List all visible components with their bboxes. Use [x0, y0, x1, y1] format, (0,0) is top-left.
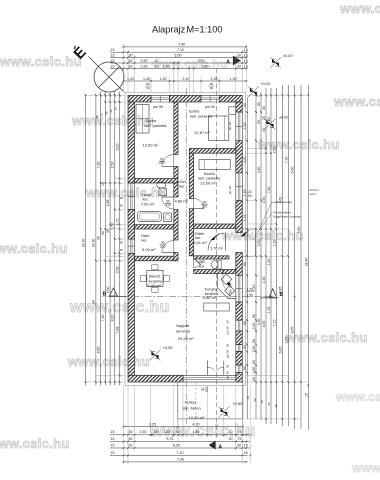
wall kitchen top: [223, 270, 236, 274]
svg-text:15: 15: [111, 443, 115, 447]
svg-text:60: 60: [120, 248, 124, 252]
svg-text:10: 10: [155, 59, 159, 63]
svg-text:75: 75: [238, 430, 242, 434]
svg-text:2,50: 2,50: [111, 162, 115, 169]
kitchen island: [204, 303, 229, 311]
svg-text:29,28 m²: 29,28 m²: [178, 336, 194, 341]
svg-text:6,50: 6,50: [173, 443, 180, 447]
svg-text:2,10: 2,10: [183, 77, 190, 81]
top wall segment right corner: [219, 95, 242, 102]
svg-text:7,15: 7,15: [272, 320, 276, 327]
svg-text:+0,02: +0,02: [260, 82, 270, 86]
entry arrow porch: [241, 232, 247, 237]
svg-text:1,50: 1,50: [111, 223, 115, 230]
kitchen stove diamond: [225, 286, 235, 296]
svg-text:ker.: ker.: [199, 264, 205, 268]
door utility: [173, 240, 175, 253]
svg-text:30: 30: [262, 106, 266, 110]
svg-text:90: 90: [210, 86, 214, 90]
svg-text:15: 15: [111, 64, 115, 68]
window living room right wall 2: [235, 345, 237, 352]
wall V2 lower: [189, 209, 193, 256]
svg-text:Étkező: Étkező: [149, 274, 161, 279]
svg-text:1,15: 1,15: [243, 215, 247, 222]
terrace double door: [206, 361, 208, 376]
svg-text:1,20: 1,20: [243, 190, 247, 197]
washbasin: [157, 182, 166, 188]
svg-text:5,75: 5,75: [167, 437, 174, 441]
svg-text:pm 90: pm 90: [228, 185, 232, 194]
svg-text:15: 15: [111, 430, 115, 434]
svg-text:18,40: 18,40: [304, 258, 308, 267]
svg-text:1,20: 1,20: [267, 259, 271, 266]
svg-text:lam. parketta: lam. parketta: [190, 114, 213, 118]
svg-text:ker.: ker.: [179, 185, 185, 189]
svg-text:7,10: 7,10: [177, 48, 184, 52]
svg-text:90: 90: [120, 241, 124, 245]
svg-text:szint: szint: [310, 192, 316, 196]
svg-text:Nappali: Nappali: [176, 324, 189, 328]
svg-text:15: 15: [244, 451, 248, 455]
svg-text:5,51 m²: 5,51 m²: [193, 240, 207, 245]
svg-text:2,88: 2,88: [106, 200, 110, 207]
svg-text:www.csic.hu: www.csic.hu: [0, 436, 70, 451]
svg-text:Szoba: Szoba: [145, 119, 157, 123]
svg-text:60: 60: [243, 321, 247, 325]
svg-text:210: 210: [202, 204, 208, 208]
covered porch slab: [242, 228, 255, 230]
svg-text:pm 90: pm 90: [205, 105, 215, 109]
right wall segment 7: [236, 352, 243, 366]
level marker terrace: [219, 407, 229, 417]
wall WC bottom: [194, 270, 223, 274]
svg-text:90: 90: [146, 86, 150, 90]
svg-text:4,60: 4,60: [106, 287, 110, 294]
svg-text:45: 45: [95, 115, 99, 119]
svg-text:2,60: 2,60: [252, 346, 256, 353]
svg-text:8,55: 8,55: [291, 327, 295, 334]
svg-text:10: 10: [154, 430, 158, 434]
svg-text:2,80: 2,80: [202, 64, 209, 68]
top wall segment left corner: [128, 95, 151, 102]
svg-text:www.csic.hu: www.csic.hu: [339, 1, 380, 16]
right wall segment 6: [236, 331, 243, 345]
svg-text:40: 40: [243, 103, 247, 107]
svg-text:3,90: 3,90: [198, 59, 205, 63]
section marker B left: [109, 288, 117, 296]
svg-text:7,00 m²: 7,00 m²: [141, 202, 155, 207]
svg-text:2,50: 2,50: [257, 240, 261, 247]
svg-text:30: 30: [101, 231, 105, 235]
svg-text:80: 80: [257, 102, 261, 106]
svg-text:pm 90: pm 90: [153, 105, 163, 109]
level marker living room: [150, 350, 161, 361]
svg-text:60: 60: [252, 377, 256, 381]
right wall segment 1: [236, 102, 243, 112]
kitchen sink diamond: [221, 274, 232, 285]
svg-text:30: 30: [104, 111, 108, 115]
svg-text:18,40: 18,40: [81, 239, 85, 248]
svg-text:60: 60: [243, 366, 247, 370]
svg-text:1,20: 1,20: [252, 285, 256, 292]
section line A-A vertical dashed: [216, 68, 218, 440]
svg-text:2,50: 2,50: [141, 59, 148, 63]
left wall middle segment: [128, 210, 135, 239]
svg-text:1,00: 1,00: [163, 64, 170, 68]
right dimension columns: [246, 97, 248, 419]
svg-text:pm 90: pm 90: [228, 121, 232, 130]
svg-text:15: 15: [274, 404, 278, 408]
svg-text:4,60: 4,60: [278, 197, 282, 204]
door bedroom1 (90/210): [173, 155, 175, 167]
svg-text:www.csic.hu: www.csic.hu: [221, 228, 304, 243]
svg-text:Alaprajz: Alaprajz: [152, 25, 186, 35]
svg-text:www.csic.hu: www.csic.hu: [351, 461, 380, 475]
svg-text:210: 210: [205, 387, 209, 393]
svg-text:4,60: 4,60: [257, 167, 261, 174]
svg-text:Konyha: Konyha: [205, 287, 219, 291]
svg-text:±0,00: ±0,00: [279, 116, 288, 120]
door bedroom3: [193, 198, 195, 208]
svg-text:40: 40: [92, 300, 96, 304]
svg-text:2,60: 2,60: [252, 367, 256, 374]
svg-text:www.csic.hu: www.csic.hu: [71, 113, 154, 128]
window kitchen right wall: [235, 275, 237, 302]
right wall segment 5: [236, 302, 243, 320]
wall V1 lower stub: [174, 253, 178, 261]
window W2 top (pm 90): [201, 94, 219, 96]
window living room right wall 1: [235, 320, 237, 331]
svg-text:15: 15: [111, 53, 115, 57]
entrance door: [225, 233, 227, 251]
left wall upper segment: [128, 102, 135, 183]
svg-text:15: 15: [244, 48, 248, 52]
niche bedroom2: [229, 107, 236, 115]
svg-text:15: 15: [244, 59, 248, 63]
svg-text:30: 30: [129, 64, 133, 68]
section marker A bottom: [209, 441, 215, 449]
svg-text:30: 30: [226, 344, 230, 348]
svg-text:4,55: 4,55: [262, 321, 266, 328]
svg-text:lam. parketta: lam. parketta: [144, 124, 167, 128]
svg-text:1,30: 1,30: [272, 240, 276, 247]
svg-text:12,87 m²: 12,87 m²: [194, 130, 210, 135]
svg-text:1,20: 1,20: [163, 430, 170, 434]
svg-text:5,00: 5,00: [115, 144, 119, 151]
section marker B right: [269, 289, 277, 298]
svg-text:7,40: 7,40: [177, 457, 184, 461]
svg-text:60: 60: [252, 360, 256, 364]
svg-text:www.csic.hu: www.csic.hu: [67, 354, 150, 369]
toilet WC: [218, 260, 221, 269]
svg-text:30: 30: [226, 365, 230, 369]
svg-text:9,46 m²: 9,46 m²: [203, 295, 217, 300]
svg-text:pm 30: pm 30: [226, 371, 230, 379]
svg-text:30: 30: [237, 443, 241, 447]
svg-text:30: 30: [129, 53, 133, 57]
svg-text:5,49 m²: 5,49 m²: [147, 283, 161, 288]
svg-text:www.csic.hu: www.csic.hu: [333, 94, 380, 109]
svg-text:1,30: 1,30: [267, 117, 271, 124]
svg-text:www.csic.hu: www.csic.hu: [257, 137, 340, 152]
svg-text:90: 90: [120, 196, 124, 200]
svg-text:60: 60: [120, 204, 124, 208]
svg-text:10: 10: [101, 182, 105, 186]
svg-text:30: 30: [237, 64, 241, 68]
bathtub: [138, 211, 162, 221]
wall H2 below bedroom1: [135, 179, 178, 184]
svg-text:3,25: 3,25: [149, 422, 156, 426]
svg-text:9,60: 9,60: [297, 227, 301, 234]
svg-text:A: A: [226, 59, 230, 65]
svg-text:M=1:100: M=1:100: [187, 25, 223, 35]
svg-text:Terasz: Terasz: [185, 400, 197, 405]
svg-text:15: 15: [111, 437, 115, 441]
window utility left wall: [127, 239, 129, 253]
svg-text:1,20: 1,20: [211, 77, 218, 81]
svg-text:1,30: 1,30: [160, 77, 167, 81]
terrace outline: [178, 382, 243, 419]
svg-text:Közl.: Közl.: [178, 180, 186, 184]
window living room right wall 3: [235, 365, 237, 373]
svg-text:7,40: 7,40: [178, 43, 185, 47]
level marker ±0,00 right: [265, 119, 276, 130]
svg-text:10: 10: [155, 64, 159, 68]
svg-text:4,80 m²: 4,80 m²: [175, 199, 189, 204]
svg-text:15: 15: [111, 48, 115, 52]
svg-text:7,90: 7,90: [96, 162, 100, 169]
svg-text:15: 15: [111, 59, 115, 63]
svg-text:15: 15: [246, 396, 250, 400]
svg-text:pm 30: pm 30: [226, 350, 230, 358]
svg-text:30: 30: [129, 437, 133, 441]
wall H1 below bedroom2: [189, 149, 236, 154]
svg-text:függőleges burkolat: függőleges burkolat: [274, 214, 301, 218]
svg-text:6,50: 6,50: [291, 167, 295, 174]
svg-text:30: 30: [129, 443, 133, 447]
svg-text:kerámia: kerámia: [176, 330, 190, 334]
svg-text:30: 30: [96, 236, 100, 240]
wall V2 upper: [189, 153, 193, 198]
svg-text:60: 60: [243, 262, 247, 266]
entry arrow inside: [210, 235, 216, 240]
level marker ±0,00 upper: [270, 57, 281, 68]
section line B-B horizontal dash-dot: [108, 296, 274, 298]
svg-text:1,00: 1,00: [243, 123, 247, 130]
wall V1 bathroom/utility: [174, 210, 178, 241]
svg-text:210: 210: [159, 161, 165, 165]
svg-text:+0,55: +0,55: [163, 345, 174, 350]
plaster/insulation envelope: [125, 92, 246, 385]
svg-text:5,00 m²: 5,00 m²: [142, 247, 156, 252]
svg-text:30: 30: [129, 59, 133, 63]
svg-text:1,76 m²: 1,76 m²: [210, 247, 224, 251]
svg-text:15: 15: [260, 400, 264, 404]
left dimension columns: [85, 94, 87, 385]
svg-text:1,50: 1,50: [247, 294, 254, 298]
svg-text:15: 15: [244, 64, 248, 68]
svg-text:45: 45: [262, 128, 266, 132]
svg-text:7,30: 7,30: [284, 157, 288, 164]
top dimension rows: [124, 46, 247, 48]
svg-text:10,50 m²: 10,50 m²: [189, 415, 205, 420]
svg-text:4,50: 4,50: [257, 319, 261, 326]
svg-text:2,65: 2,65: [284, 337, 288, 344]
svg-text:www.csic.hu: www.csic.hu: [0, 54, 82, 69]
svg-text:15: 15: [244, 53, 248, 57]
svg-text:15: 15: [111, 451, 115, 455]
bed bedroom3: [199, 160, 230, 170]
bottom wall segment left: [128, 375, 183, 382]
svg-text:2,50: 2,50: [262, 197, 266, 204]
right wall segment 4: [236, 253, 243, 276]
left wall lower segment: [128, 253, 135, 375]
svg-text:1,30: 1,30: [262, 277, 266, 284]
svg-text:10: 10: [100, 113, 104, 117]
svg-text:2,00: 2,00: [243, 157, 247, 164]
door WC: [193, 258, 195, 268]
svg-text:75: 75: [238, 437, 242, 441]
svg-text:Fürdő: Fürdő: [142, 193, 152, 197]
wall WC top: [194, 256, 229, 259]
svg-text:www.csic.hu: www.csic.hu: [0, 241, 68, 256]
svg-text:30: 30: [226, 320, 230, 324]
wall V1 mid stub: [174, 167, 178, 179]
svg-text:30: 30: [237, 59, 241, 63]
svg-text:40: 40: [176, 430, 180, 434]
svg-text:±0,00: ±0,00: [283, 54, 292, 58]
svg-text:Házt.: Házt.: [141, 234, 150, 238]
section marker A top: [233, 56, 240, 65]
svg-text:30: 30: [253, 398, 257, 402]
svg-text:2,85: 2,85: [278, 287, 282, 294]
svg-text:18,30: 18,30: [92, 239, 96, 248]
svg-text:210: 210: [160, 245, 166, 249]
svg-text:15: 15: [244, 443, 248, 447]
north compass: [94, 62, 124, 92]
svg-text:6,50: 6,50: [175, 53, 182, 57]
svg-text:2,50: 2,50: [272, 147, 276, 154]
svg-text:pm 90: pm 90: [229, 284, 233, 293]
wall V1 upper: [174, 102, 178, 155]
wall H4 below utility: [135, 256, 177, 261]
right wall segment 2: [236, 141, 243, 173]
svg-text:7,80: 7,80: [267, 187, 271, 194]
svg-text:7,10: 7,10: [177, 451, 184, 455]
svg-text:90: 90: [201, 388, 205, 392]
section line mid dash-dot: [185, 88, 187, 424]
window bedroom3 right wall: [235, 173, 237, 201]
svg-text:pm 30: pm 30: [226, 326, 230, 334]
svg-text:4,20: 4,20: [193, 422, 200, 426]
svg-text:8,20: 8,20: [111, 315, 115, 322]
svg-text:+0,53: +0,53: [232, 401, 243, 406]
svg-text:3,58: 3,58: [115, 267, 119, 274]
window bathroom left wall: [127, 183, 129, 210]
door bathroom: [173, 197, 175, 210]
svg-text:60: 60: [252, 339, 256, 343]
top wall segment middle: [170, 95, 202, 102]
window W1 top (pm 90): [151, 94, 170, 96]
svg-text:60: 60: [252, 314, 256, 318]
level marker +0,02 top right: [248, 86, 259, 97]
svg-text:8,85: 8,85: [96, 347, 100, 354]
svg-text:12,60 m²: 12,60 m²: [200, 181, 216, 186]
kitchen counter: [218, 274, 236, 299]
wall H3 below bathroom: [135, 225, 175, 229]
svg-text:12,59 m²: 12,59 m²: [143, 143, 159, 148]
svg-text:1,75: 1,75: [115, 219, 119, 226]
svg-text:30: 30: [229, 437, 233, 441]
svg-text:ker.: ker.: [141, 239, 147, 243]
svg-text:www.csic.hu: www.csic.hu: [335, 390, 380, 404]
window bedroom2 right wall: [235, 112, 237, 141]
svg-text:A: A: [218, 444, 222, 450]
svg-text:30: 30: [237, 53, 241, 57]
svg-text:25: 25: [257, 120, 261, 124]
svg-text:Szoba: Szoba: [189, 109, 201, 113]
wardrobe bedroom1: [136, 105, 149, 134]
svg-text:30: 30: [129, 430, 133, 434]
svg-text:2,50: 2,50: [140, 430, 147, 434]
svg-text:30: 30: [109, 109, 113, 113]
svg-text:6,85: 6,85: [278, 347, 282, 354]
bottom dimension rows: [124, 426, 243, 428]
svg-text:www.csic.hu: www.csic.hu: [85, 185, 168, 200]
wall V1 bathroom upper: [174, 183, 178, 197]
svg-text:1,85: 1,85: [193, 430, 200, 434]
washer square bathroom: [159, 188, 166, 195]
svg-text:25: 25: [262, 116, 266, 120]
svg-text:Szoba: Szoba: [204, 172, 216, 176]
washing machine: [164, 213, 172, 222]
dining table: [147, 271, 163, 287]
svg-text:2,50: 2,50: [141, 64, 148, 68]
right wall segment 3: [236, 200, 243, 232]
svg-text:www.csic.hu: www.csic.hu: [285, 330, 368, 345]
svg-text:sim. beton: sim. beton: [182, 406, 200, 411]
svg-text:210: 210: [165, 203, 171, 207]
svg-text:30: 30: [106, 229, 110, 233]
svg-text:15: 15: [114, 107, 118, 111]
svg-text:1,30: 1,30: [143, 77, 150, 81]
svg-text:30: 30: [267, 402, 271, 406]
bed bedroom2: [208, 116, 228, 140]
svg-text:90: 90: [243, 345, 247, 349]
svg-text:30: 30: [229, 430, 233, 434]
svg-text:7,40: 7,40: [101, 315, 105, 322]
svg-text:7,88: 7,88: [115, 327, 119, 334]
right wall segment 8: [236, 373, 243, 383]
svg-text:15: 15: [304, 393, 308, 397]
svg-text:1,30: 1,30: [230, 77, 237, 81]
wall H5 below bedroom3: [194, 224, 236, 229]
terrace glass wall: [183, 374, 236, 376]
svg-text:2,60: 2,60: [252, 323, 256, 330]
svg-text:1,35: 1,35: [267, 307, 271, 314]
